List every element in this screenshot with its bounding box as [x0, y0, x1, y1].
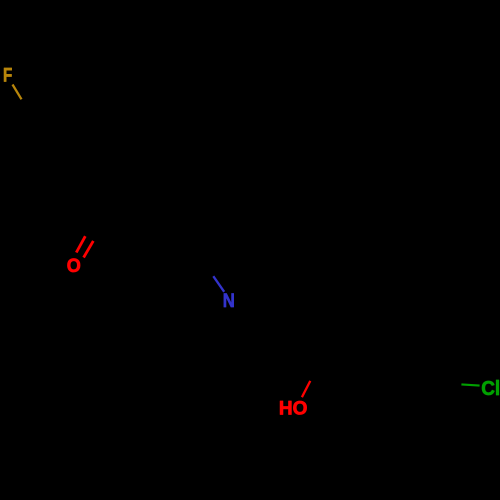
svg-text:N: N	[223, 290, 235, 311]
svg-text:O: O	[67, 255, 81, 277]
svg-text:Cl: Cl	[481, 377, 500, 400]
svg-text:F: F	[3, 64, 12, 86]
svg-text:HO: HO	[279, 398, 308, 419]
